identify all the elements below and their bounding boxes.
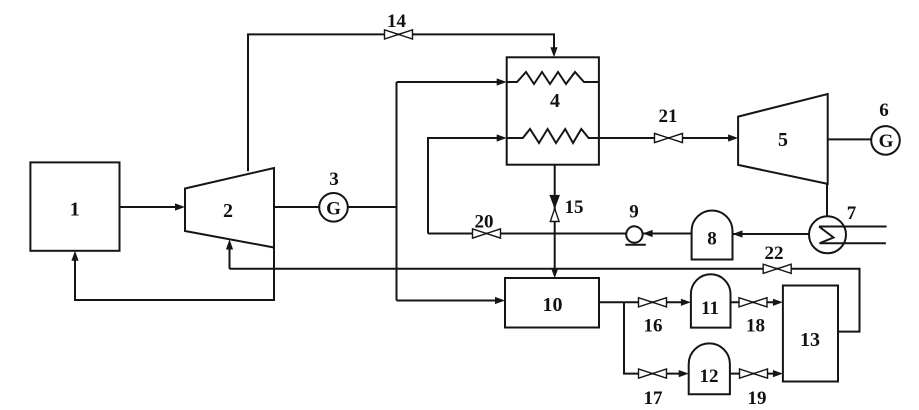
condenser 7 <box>809 216 846 253</box>
svg-text:21: 21 <box>659 106 678 127</box>
wire dome11 to box13 <box>731 299 783 306</box>
wire turbine5 to G6 <box>828 138 872 140</box>
coil bottom of HX4 <box>507 129 599 143</box>
svg-text:10: 10 <box>543 294 563 316</box>
svg-text:12: 12 <box>700 366 719 387</box>
svg-text:13: 13 <box>800 329 820 351</box>
svg-text:1: 1 <box>70 199 80 221</box>
svg-text:17: 17 <box>644 388 664 409</box>
wire turbine2 top riser and top header to HX4 <box>248 34 558 171</box>
wire turbine5 to condenser7 <box>826 184 828 217</box>
svg-text:2: 2 <box>223 200 233 222</box>
wire line22 from turbine2 to box13 <box>230 269 860 332</box>
svg-text:3: 3 <box>329 169 339 190</box>
svg-text:14: 14 <box>387 11 407 32</box>
generator G6 <box>871 126 900 155</box>
box 13 <box>783 286 838 382</box>
svg-text:4: 4 <box>550 90 560 112</box>
svg-text:G: G <box>879 131 894 152</box>
wire condenser7 to dome8 <box>733 230 810 237</box>
dome 11 <box>691 274 731 327</box>
turbine 5 <box>738 94 828 184</box>
wire pump line left segment <box>428 233 626 235</box>
wire riser to box10 entry <box>397 297 506 304</box>
svg-text:11: 11 <box>701 298 719 319</box>
svg-text:15: 15 <box>565 197 584 218</box>
valve 16 <box>639 298 667 307</box>
cooling water line lower <box>820 242 886 244</box>
svg-text:19: 19 <box>748 388 767 409</box>
wire box10 to dome11 <box>599 299 691 306</box>
generator G3 <box>319 193 348 222</box>
wire box1 to turbine2 <box>120 203 186 210</box>
heat exchanger 4 <box>507 57 599 164</box>
wire turbine2 to G3 <box>274 206 320 208</box>
wire riser x396 vertical <box>396 82 398 301</box>
valve 18 <box>739 298 767 307</box>
box 1 <box>30 162 119 250</box>
wire dome8 to pump9 <box>643 230 692 237</box>
svg-text:9: 9 <box>629 202 639 223</box>
svg-text:18: 18 <box>746 316 765 337</box>
wire riser into turbine2 bottom <box>226 240 233 269</box>
svg-text:6: 6 <box>879 100 889 121</box>
box 10 <box>505 278 599 328</box>
svg-text:5: 5 <box>778 129 788 151</box>
valve 21 <box>655 133 683 142</box>
wire loop turbine2 to box1 <box>71 248 274 301</box>
valve 17 <box>639 369 667 378</box>
wire branch to valve17 and dome12 <box>624 302 689 377</box>
wire G3 to riser <box>348 206 397 208</box>
valve 22 <box>763 264 791 273</box>
coil top of HX4 <box>507 72 599 84</box>
dome 8 <box>692 210 733 259</box>
valve 19 <box>740 369 768 378</box>
wire HX4 drop to box10 with valve 15 <box>551 165 558 279</box>
turbine 2 <box>185 168 274 248</box>
valve 20 <box>473 229 501 238</box>
cooling water line upper <box>819 226 887 228</box>
svg-text:20: 20 <box>475 212 494 233</box>
svg-text:G: G <box>326 199 341 220</box>
valve 15 <box>550 196 559 222</box>
svg-text:22: 22 <box>765 243 784 264</box>
svg-text:7: 7 <box>847 203 857 224</box>
svg-text:16: 16 <box>644 316 663 337</box>
wire riser to HX4 top coil entry <box>397 78 507 85</box>
pump 9 <box>625 226 645 245</box>
wire HX4 to turbine5 <box>599 134 738 141</box>
valve 14 <box>385 30 413 39</box>
dome 12 <box>689 343 730 394</box>
wire riser x428 to HX4 bottom coil entry <box>428 134 507 233</box>
svg-text:8: 8 <box>707 229 717 250</box>
wire dome12 to box13 <box>730 370 783 377</box>
